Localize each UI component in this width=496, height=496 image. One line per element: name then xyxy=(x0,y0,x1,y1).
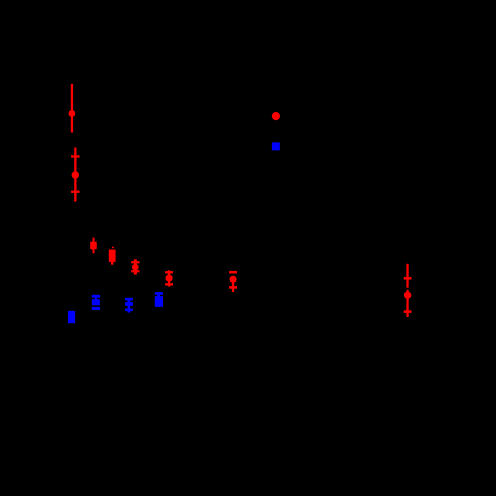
red errorbar point P4 xyxy=(109,247,116,265)
red errorbar point P2 xyxy=(71,148,80,202)
red errorbar point P7 xyxy=(229,271,237,292)
red errorbar point P5 xyxy=(131,259,139,274)
red errorbar point P6 xyxy=(165,270,173,286)
red errorbar point P8 (right) xyxy=(404,264,412,317)
red errorbar point P1 xyxy=(69,84,76,133)
red errorbar point P3 xyxy=(90,238,97,254)
blue errorbar point B3 xyxy=(155,292,163,307)
blue errorbar point B1 xyxy=(92,295,100,310)
legend marker: red circle xyxy=(272,112,280,120)
blue errorbar point B2 xyxy=(125,298,133,313)
blue errorbar point B0 xyxy=(68,311,75,323)
legend marker: blue square xyxy=(272,142,280,150)
